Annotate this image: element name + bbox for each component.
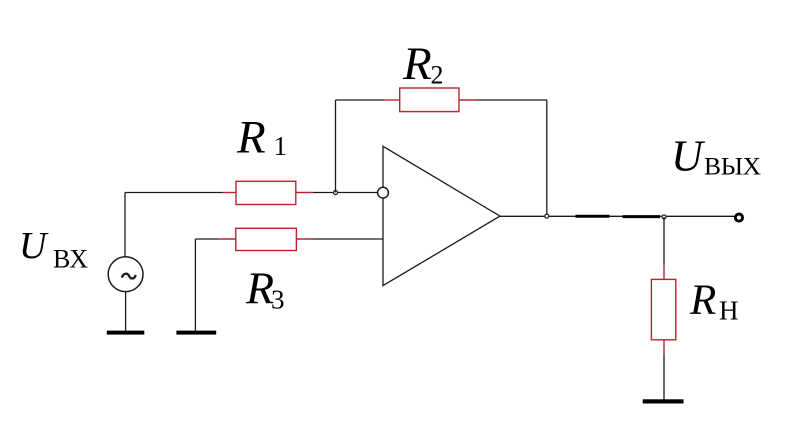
- op-amp U1 triangle: [383, 146, 500, 285]
- resistor RH: [651, 265, 675, 355]
- wire output horizontal: [500, 215, 735, 217]
- wire load vertical upper: [663, 217, 665, 265]
- wire load vertical lower: [663, 355, 665, 400]
- wire output thick segment 1: [576, 215, 610, 218]
- ground under RH: [643, 399, 684, 403]
- svg-text:1: 1: [274, 131, 288, 161]
- source V1 AC symbol: [108, 257, 143, 292]
- node junction at inverting input: [334, 191, 338, 195]
- svg-text:2: 2: [431, 61, 444, 90]
- label R1: [236, 112, 287, 164]
- svg-text:R: R: [236, 112, 266, 164]
- output terminal: [735, 214, 742, 221]
- wire feedback right vertical: [546, 100, 548, 216]
- ground under source: [107, 331, 145, 335]
- node feedback junction on output: [545, 214, 549, 218]
- label R3: [245, 263, 285, 315]
- wire input horizontal from source to R1: [125, 192, 223, 194]
- label R2: [402, 38, 444, 90]
- wire output thick segment 2: [623, 215, 661, 218]
- resistor R3: [219, 228, 313, 250]
- label RH: [689, 277, 739, 326]
- svg-text:ВХ: ВХ: [53, 245, 88, 274]
- wire R3 to op-amp noninverting input: [312, 238, 383, 240]
- resistor R1: [223, 181, 313, 204]
- svg-text:3: 3: [271, 285, 285, 315]
- node load junction on output: [662, 215, 666, 219]
- inverting input bubble: [378, 187, 389, 198]
- wire below source: [125, 292, 127, 331]
- ground for R3: [176, 331, 216, 335]
- label Uout: [671, 132, 761, 181]
- wire R1 to inverting input: [313, 192, 378, 194]
- svg-text:U: U: [19, 225, 49, 267]
- svg-text:R: R: [402, 38, 432, 90]
- wire feedback top left horizontal: [336, 99, 385, 101]
- label Uin: [19, 225, 88, 274]
- svg-text:R: R: [245, 263, 274, 314]
- wire input vertical down to source: [124, 193, 126, 257]
- wire feedback top right horizontal: [476, 99, 547, 101]
- svg-text:U: U: [671, 132, 706, 181]
- svg-text:R: R: [689, 277, 716, 324]
- resistor R2: [384, 88, 476, 112]
- wire R3 left horizontal: [195, 238, 218, 240]
- wire feedback left vertical: [335, 100, 337, 193]
- svg-text:Н: Н: [719, 296, 739, 326]
- svg-text:ВЫХ: ВЫХ: [704, 152, 761, 181]
- wire R3 ground vertical: [194, 239, 196, 331]
